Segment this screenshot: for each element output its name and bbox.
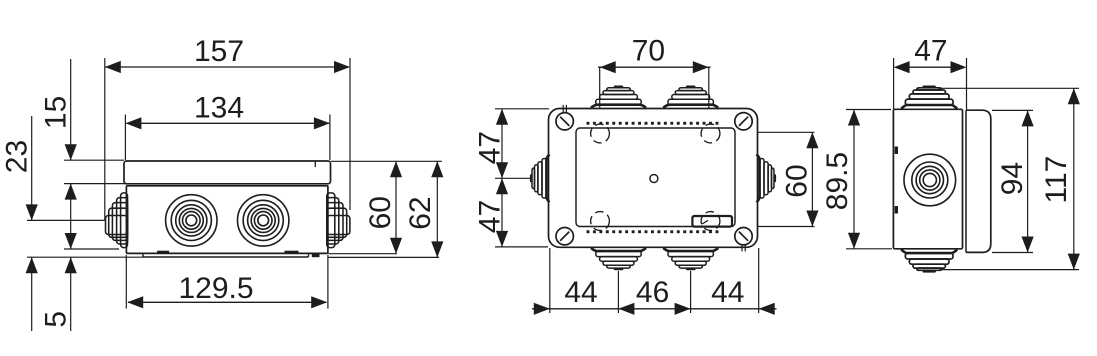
dim 94 label [996,162,1029,195]
right foot pad [312,253,320,257]
dim 129.5 label [178,272,253,305]
svg-text:44: 44 [711,276,744,309]
dim 134 left extension [124,115,126,161]
dim 134 line [125,117,330,129]
side view lid joint line [965,110,967,252]
svg-text:94: 94 [996,162,1029,195]
bottom nozzle dome right [663,248,718,270]
dim 134 label [194,92,244,125]
dim 47 side left extension [893,58,895,109]
svg-text:47: 47 [473,200,506,233]
dim 117 bottom extension [940,269,1079,271]
svg-text:62: 62 [404,196,437,229]
dim 44 left extension [549,248,551,313]
knockout dashed circle top-right [701,124,720,143]
vent square row bottom [587,230,719,233]
dim 70 right extension [708,67,710,108]
svg-text:46: 46 [636,276,669,309]
dim 60 label (top view) [780,164,813,197]
dim 70 line [598,61,711,73]
svg-text:5: 5 [39,311,72,328]
svg-text:60: 60 [364,196,397,229]
dim 47 side right extension [966,58,968,110]
dim 46 left extension [617,271,619,313]
left side nozzle dome [530,154,550,202]
dim 94 top extension [992,109,1033,111]
svg-text:89.5: 89.5 [821,152,854,210]
right knockout rings [238,195,289,246]
dim 134 right extension [329,115,331,161]
dim 129.5 right extension [327,255,329,309]
dim 89.5 bottom extension [846,248,892,250]
dim 117 line [1068,88,1080,269]
centre hole [650,175,658,183]
dim 89.5 top extension [846,109,891,111]
left cable nozzle (stepped cone) [106,193,128,248]
dim 129.5 line [127,296,327,308]
side knockout rings [904,154,956,206]
right cable nozzle (stepped cone) [327,193,350,248]
side top nozzle dome [901,86,957,109]
dim 60 line (front) [390,161,402,253]
dim 157 left extension [104,58,106,221]
dim 94 bottom extension [992,252,1033,254]
box body (front view) [126,186,328,254]
screw bottom-right [735,228,752,252]
dim 157 right extension [349,58,351,210]
dim 62 bottom extension [329,256,440,258]
svg-text:44: 44 [564,276,597,309]
dim 23 label [1,140,34,173]
dim 47 extension top [495,108,549,110]
svg-text:60: 60 [780,164,813,197]
side view lid [966,110,991,252]
top nozzle dome right [663,86,718,108]
dim 129.5 left extension [125,255,127,309]
dim 70 left extension [599,67,601,108]
dim 157 line [105,61,350,73]
dim 5 lower arrow [65,257,77,331]
dim 47 extension bottom [495,246,548,248]
side view hinge tab lower [895,206,898,214]
dim 44 right extension [758,248,760,313]
dim 117 label [1040,156,1073,204]
dim 23 lower arrow [26,257,38,331]
svg-text:47: 47 [473,131,506,164]
dim 5 extension bottom [27,256,143,258]
dim 60 label (front) [364,196,397,229]
dim 89.5 line [848,110,860,249]
dim 89.5 label [821,152,854,210]
dim 47 pair line [496,109,508,247]
dim 44-46-44 line [532,303,777,315]
bottom nozzle dome left [591,248,646,270]
dim 60 bottom extension [758,226,815,228]
dim 15 extension bottom [64,183,126,185]
dim 157 label [194,35,244,68]
lid mould notch [314,161,316,167]
side view hinge tab upper [895,147,898,155]
top nozzle dome left [591,86,646,108]
dim 47 extension mid [495,177,531,179]
top view box outline [549,109,758,248]
dim 5 label [39,311,72,328]
dim 94 line [1022,110,1034,252]
dim 47 side line [894,61,967,73]
svg-text:129.5: 129.5 [178,272,253,305]
label plate [692,216,732,227]
dim 47 lower label [473,200,506,233]
dim 44 right label [711,276,744,309]
dim 47 upper label [473,131,506,164]
dim 60 bottom extension [329,253,398,255]
knockout dashed circle bottom-right [701,212,720,231]
right side nozzle dome [757,154,777,202]
left foot pad [157,251,169,254]
dim 23 extension mid [27,219,105,221]
svg-text:134: 134 [194,92,244,125]
dim 46 label [636,276,669,309]
svg-text:47: 47 [914,35,947,68]
dim 62 line [431,161,443,257]
svg-text:70: 70 [632,35,665,68]
junction box lid (front view) [124,161,331,184]
dim 70 label [632,35,665,68]
svg-text:117: 117 [1040,156,1073,204]
screw top-right [735,113,752,130]
side view body [893,109,962,249]
left knockout rings [166,195,217,246]
svg-text:157: 157 [194,35,244,68]
dim 15 label [39,96,72,129]
dim 117 top extension [938,87,1079,89]
knockout dashed circle top-left [591,124,610,143]
dim 46 right extension [690,271,692,313]
dim 15 extension top [64,159,124,161]
screw top-left [556,105,573,130]
dim 60 line (top view) [806,132,818,226]
dim 15 line upper [65,59,77,160]
dim 44 left label [564,276,597,309]
dim 5 upper arrow [65,233,77,249]
dim 60 top extension [758,131,815,133]
middle foot pad [285,251,299,254]
vent square row top [587,122,719,125]
dim 47 side label [914,35,947,68]
screw bottom-left [556,228,573,245]
dim 62 label [404,196,437,229]
dim 60/62 top extension [331,160,442,162]
dim 15 arrow lower [65,184,77,249]
top view lid recess [576,128,735,227]
dim 5 extension [64,248,119,250]
svg-text:23: 23 [1,140,34,173]
dim 23 line [26,116,38,220]
base feet line [143,253,309,257]
knockout dashed circle bottom-left [591,212,610,231]
svg-text:15: 15 [39,96,72,129]
side bottom nozzle dome [901,249,957,272]
